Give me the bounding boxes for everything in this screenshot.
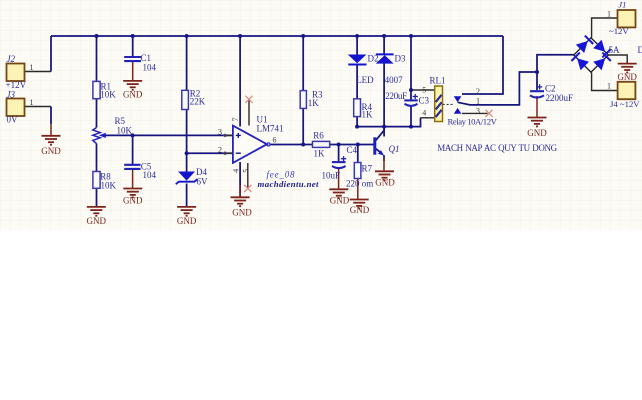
svg-text:D4: D4 [196,167,207,177]
svg-text:GND: GND [527,128,547,138]
svg-text:C3: C3 [419,95,430,105]
svg-text:22K: 22K [190,97,206,107]
svg-text:4: 4 [232,169,241,173]
svg-text:104: 104 [143,63,157,73]
svg-text:GND: GND [330,196,350,206]
svg-text:6V: 6V [197,177,209,187]
svg-text:GND: GND [617,72,637,82]
svg-text:J4 ~12V: J4 ~12V [610,99,640,109]
svg-text:1: 1 [30,98,34,107]
svg-text:J2: J2 [7,54,16,64]
svg-text:fee_08: fee_08 [267,169,296,179]
svg-text:5: 5 [241,169,250,173]
svg-text:C1: C1 [141,53,152,63]
svg-text:4007: 4007 [385,75,404,85]
svg-text:LED: LED [356,75,374,85]
svg-text:10uF: 10uF [322,171,341,181]
svg-text:6: 6 [273,136,277,145]
svg-text:machdientu.net: machdientu.net [258,179,320,189]
svg-text:10K: 10K [117,125,133,135]
svg-text:1K: 1K [308,98,320,108]
svg-text:J3: J3 [7,90,16,100]
svg-text:MACH NAP AC QUY TU DONG: MACH NAP AC QUY TU DONG [437,143,557,153]
svg-text:GND: GND [41,146,61,156]
svg-text:RL1: RL1 [430,76,446,86]
svg-text:GND: GND [87,216,107,226]
svg-text:2: 2 [476,87,480,96]
svg-text:R6: R6 [313,131,324,141]
svg-text:1: 1 [476,97,480,106]
svg-text:5A: 5A [609,45,621,55]
svg-text:Relay 10A/12V: Relay 10A/12V [448,116,498,126]
svg-text:2: 2 [218,145,222,154]
svg-text:R7: R7 [362,163,373,173]
svg-text:D2: D2 [368,54,379,64]
svg-text:220 om: 220 om [346,179,373,189]
svg-text:2200uF: 2200uF [546,93,574,103]
svg-text:C4: C4 [347,145,358,155]
svg-text:LM741: LM741 [257,124,284,134]
svg-text:+12V: +12V [6,80,27,90]
svg-text:0V: 0V [7,115,19,125]
svg-text:1: 1 [607,81,611,90]
svg-text:5: 5 [422,86,426,95]
svg-text:D: D [638,45,642,55]
svg-text:C2: C2 [545,84,556,94]
svg-text:7: 7 [231,118,240,122]
svg-text:D3: D3 [395,54,406,64]
svg-text:104: 104 [143,170,157,180]
svg-text:Q1: Q1 [389,144,400,154]
svg-text:J1: J1 [618,0,626,9]
svg-text:GND: GND [123,90,143,100]
svg-text:GND: GND [350,205,370,215]
svg-text:GND: GND [375,177,395,187]
svg-text:10K: 10K [101,180,117,190]
svg-text:1: 1 [30,63,34,72]
svg-text:10K: 10K [100,89,116,99]
svg-text:GND: GND [232,208,252,218]
svg-text:4: 4 [422,109,426,118]
svg-text:GND: GND [123,196,143,206]
svg-text:1K: 1K [362,109,374,119]
svg-text:3: 3 [476,107,480,116]
svg-text:3: 3 [218,128,222,137]
svg-text:1K: 1K [314,148,326,158]
svg-text:GND: GND [177,216,197,226]
svg-text:1: 1 [607,9,611,18]
svg-text:220uF: 220uF [385,91,407,101]
svg-text:~12V: ~12V [609,26,629,36]
